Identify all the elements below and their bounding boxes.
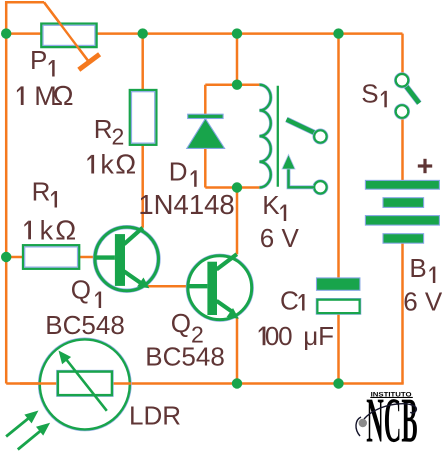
svg-text:2: 2: [112, 123, 125, 149]
svg-text:2: 2: [191, 321, 204, 347]
svg-text:0: 0: [278, 321, 292, 351]
svg-text:1N4148: 1N4148: [138, 189, 234, 220]
svg-text:Ω: Ω: [53, 80, 74, 111]
svg-text:k: k: [40, 215, 54, 245]
svg-text:C: C: [280, 285, 299, 315]
svg-text:R: R: [94, 114, 113, 144]
svg-text:R: R: [32, 177, 51, 207]
svg-text:6 V: 6 V: [403, 287, 443, 317]
svg-text:D: D: [169, 156, 188, 186]
svg-text:P: P: [30, 45, 47, 75]
svg-text:Q: Q: [71, 275, 91, 305]
svg-text:Ω: Ω: [115, 149, 136, 180]
svg-text:Q: Q: [171, 308, 191, 338]
svg-text:k: k: [100, 150, 114, 180]
svg-text:K: K: [262, 190, 280, 220]
svg-text:BC548: BC548: [145, 342, 225, 372]
svg-text:LDR: LDR: [129, 401, 181, 431]
svg-text:μF: μF: [303, 321, 334, 351]
svg-text:BC548: BC548: [45, 310, 125, 340]
svg-text:Ω: Ω: [55, 214, 76, 245]
svg-text:B: B: [409, 253, 426, 283]
svg-text:S: S: [361, 79, 378, 109]
svg-text:NCB: NCB: [366, 385, 417, 451]
svg-text:6 V: 6 V: [260, 223, 300, 253]
